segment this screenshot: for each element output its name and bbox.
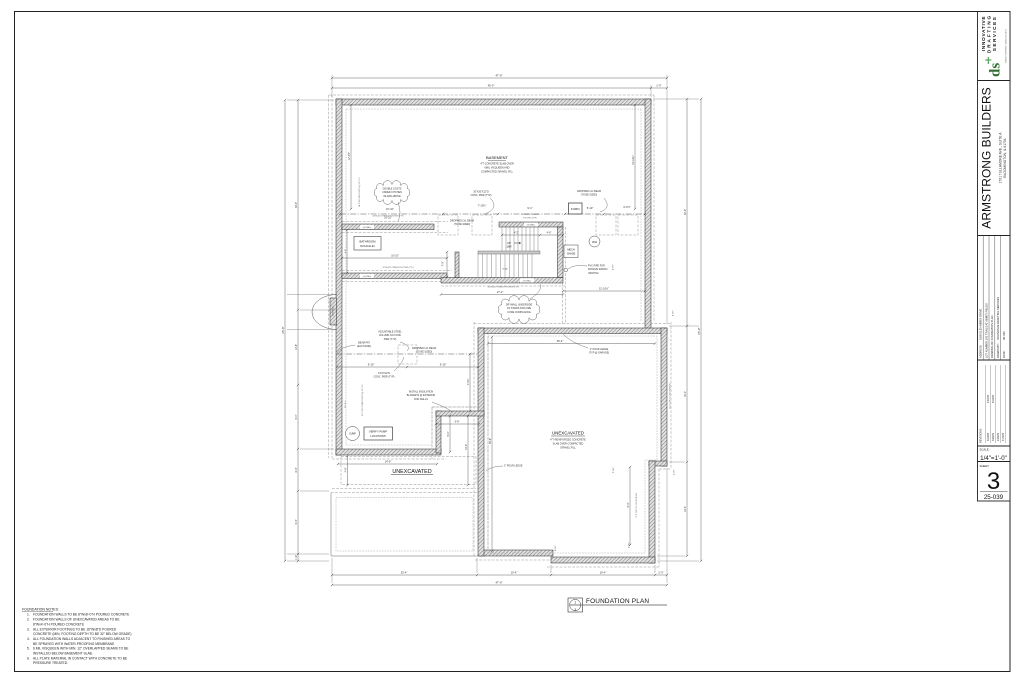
2x6 wall chip A	[360, 225, 374, 229]
foundation plan underline	[570, 604, 667, 606]
wall interior strip A	[342, 224, 434, 230]
svg-text:DRAWING OF:: DRAWING OF:	[990, 340, 994, 358]
svg-text:BLANKETS @ EXTERIOR: BLANKETS @ EXTERIOR	[407, 394, 436, 397]
svg-text:1'-0": 1'-0"	[295, 555, 298, 560]
svg-text:16"Wx10"D TRENCH: 16"Wx10"D TRENCH	[521, 214, 539, 216]
footing dashes garage bottom west	[475, 559, 551, 561]
svg-text:ds: ds	[988, 63, 1004, 77]
armstrong builders box divider	[978, 235, 1011, 237]
svg-text:COMPACTED GRAVEL FILL: COMPACTED GRAVEL FILL	[481, 171, 514, 174]
svg-text:2x6 WALL: 2x6 WALL	[527, 224, 536, 227]
title block outer frame	[978, 12, 1011, 502]
svg-text:4"T REINFORCED CONCRETE: 4"T REINFORCED CONCRETE	[550, 439, 586, 442]
svg-text:INSTALLED BELOW BASEMENT SLAB.: INSTALLED BELOW BASEMENT SLAB.	[33, 652, 93, 656]
svg-text:30'-8": 30'-8"	[489, 438, 492, 444]
cloud double joists	[374, 181, 409, 205]
lower beam dim line	[337, 366, 478, 368]
svg-text:BE SPRAYED WITH WATER-PROOFING: BE SPRAYED WITH WATER-PROOFING MEMBRANE	[33, 642, 115, 646]
insulation dashes step inner	[346, 407, 474, 445]
svg-text:PRESSURE TREATED.: PRESSURE TREATED.	[33, 661, 68, 665]
footing dashes left	[331, 95, 333, 458]
logo cross stroke	[987, 57, 989, 64]
left dim line 65-8	[284, 100, 286, 561]
dim 14-0 unexcavated	[338, 463, 437, 465]
sump circle	[346, 427, 360, 441]
bottom dim line segments	[332, 574, 667, 576]
svg-text:1: 1	[574, 601, 576, 605]
top extension lines	[331, 75, 333, 97]
svg-text:10'-0": 10'-0"	[465, 444, 468, 450]
insulation dashes basement top	[346, 108, 641, 110]
svg-text:CONCRETE (MIN. FOOTING DEPTH T: CONCRETE (MIN. FOOTING DEPTH TO BE 32" B…	[33, 632, 132, 636]
svg-text:DROPPED LVL BEAM: DROPPED LVL BEAM	[412, 347, 436, 350]
stairs lower flight treads	[477, 254, 479, 278]
svg-text:3: 3	[574, 608, 576, 612]
svg-text:LOCATIONS: LOCATIONS	[370, 434, 386, 438]
revisions divider	[978, 445, 1011, 447]
svg-text:2.: 2.	[27, 618, 30, 622]
svg-text:FOUNDATION WALLS TO BE 8"Wx8'-: FOUNDATION WALLS TO BE 8"Wx8'-0"H POURED…	[33, 613, 130, 617]
wall garage right lower	[649, 461, 655, 563]
wall stairwell bottom	[441, 278, 563, 284]
svg-text:16'-10": 16'-10"	[386, 207, 394, 211]
stairwell inner dim	[502, 234, 563, 236]
wall stairwell top	[499, 222, 563, 227]
revision column line 4	[1000, 365, 1002, 443]
wall stairwell right	[558, 227, 564, 278]
bathroom rough-in box	[354, 237, 381, 251]
svg-text:4'-6": 4'-6"	[344, 467, 347, 472]
footing dashes top	[329, 94, 654, 96]
beam pat leader	[337, 345, 355, 353]
wall garage right jog	[649, 461, 667, 466]
svg-text:10'-4": 10'-4"	[511, 570, 518, 574]
strip A footing dashes	[342, 220, 448, 222]
svg-text:DAVID CURRENT (309) 621-547: DAVID CURRENT (309) 621-5470	[1005, 29, 1008, 63]
svg-text:47'-0": 47'-0"	[495, 580, 502, 584]
svg-text:45'-0": 45'-0"	[488, 83, 495, 87]
info table column line 1	[982, 236, 984, 361]
svg-text:16'-10": 16'-10"	[384, 216, 392, 219]
revision column line 1	[985, 365, 987, 443]
svg-text:16'-10¾": 16'-10¾"	[632, 155, 635, 165]
dim 9-3 garage right	[629, 467, 631, 545]
svg-text:9'-10": 9'-10"	[440, 362, 447, 366]
svg-text:GRAVEL FILL: GRAVEL FILL	[560, 447, 576, 450]
svg-text:16"Wx10"D TRENCH FOOTING (TYP): 16"Wx10"D TRENCH FOOTING (TYP)	[488, 287, 519, 289]
svg-text:4'-6": 4'-6"	[547, 231, 552, 234]
svg-text:4/15/25: 4/15/25	[1002, 432, 1005, 441]
svg-text:PIER (TYP): PIER (TYP)	[384, 338, 397, 341]
svg-text:9'-1": 9'-1"	[527, 206, 532, 210]
svg-text:CHASE: CHASE	[567, 252, 576, 255]
svg-text:(EACH END): (EACH END)	[357, 345, 371, 348]
install insulation leader	[432, 402, 452, 412]
right dim line segments	[686, 99, 688, 556]
beam line lower	[336, 353, 478, 355]
2x6 wall chip stairs bottom	[520, 278, 534, 282]
wall top basement	[336, 99, 651, 105]
svg-text:(TO BE SIZED): (TO BE SIZED)	[454, 223, 471, 226]
svg-text:5/19/25: 5/19/25	[992, 394, 995, 403]
svg-text:5/19/25: 5/19/25	[987, 432, 990, 441]
svg-text:DRYWALL UNDERSIDE: DRYWALL UNDERSIDE	[506, 304, 532, 307]
svg-text:30'-0": 30'-0"	[295, 202, 298, 208]
strip B footing dashes	[342, 269, 452, 271]
svg-text:30"X30"X12"D: 30"X30"X12"D	[473, 191, 489, 194]
svg-text:ROUGH-IN: ROUGH-IN	[360, 244, 374, 248]
conc pier lower leader	[394, 357, 404, 371]
svg-text:INNOVATIVE DRAFTING SERVICES: INNOVATIVE DRAFTING SERVICES	[996, 297, 1000, 340]
svg-text:VENTING: VENTING	[588, 272, 599, 275]
furnace box FURN	[569, 203, 583, 214]
svg-text:ARMSTRONG BUILDERS: ARMSTRONG BUILDERS	[980, 87, 994, 228]
svg-text:4" POUR LEDGE: 4" POUR LEDGE	[590, 348, 609, 351]
svg-text:INNOVATIVE: INNOVATIVE	[981, 16, 987, 52]
svg-text:3'X3'X12"D: 3'X3'X12"D	[378, 372, 390, 375]
patio inner dashed	[336, 498, 473, 552]
svg-text:CONC. PIER (TYP): CONC. PIER (TYP)	[374, 376, 395, 379]
cloud double joists leader	[398, 202, 400, 221]
wall south basement	[336, 449, 441, 455]
svg-text:32'-0": 32'-0"	[684, 209, 687, 215]
svg-text:2x6 WALL: 2x6 WALL	[523, 279, 532, 282]
svg-text:4/22/25: 4/22/25	[987, 394, 990, 403]
verify pump box	[364, 427, 393, 440]
svg-text:FIREPLACE: FIREPLACE	[332, 305, 335, 316]
svg-text:FOUNDATION PLAN: FOUNDATION PLAN	[586, 598, 649, 605]
svg-text:FND WALLS: FND WALLS	[414, 398, 428, 401]
pier square stair mid	[472, 215, 492, 235]
wall interior strip B	[342, 273, 447, 279]
svg-text:UNDER KITCHEN: UNDER KITCHEN	[382, 191, 402, 194]
svg-text:FOUNDATION NOTES:: FOUNDATION NOTES:	[22, 608, 59, 612]
svg-text:5'-10": 5'-10"	[587, 206, 594, 210]
svg-text:(TO BE SIZED): (TO BE SIZED)	[416, 351, 433, 354]
pvc radon leader	[568, 265, 587, 269]
dim 16-10 strip B	[342, 257, 447, 259]
svg-text:23'-1" B/O STAIR JOISTS @ 16": 23'-1" B/O STAIR JOISTS @ 16" O.C.	[361, 384, 364, 416]
svg-text:6MIL VISQUEEN AND: 6MIL VISQUEEN AND	[485, 167, 510, 170]
dim 9-4 step rotated	[449, 416, 451, 452]
wall garage left	[478, 328, 484, 556]
footing dashes right basement	[653, 95, 655, 322]
wall right basement	[645, 99, 651, 333]
svg-text:FURN: FURN	[571, 207, 580, 211]
svg-text:PASSIVE RADON: PASSIVE RADON	[588, 268, 608, 271]
svg-text:4.: 4.	[27, 637, 30, 641]
pier square lower	[398, 345, 417, 364]
svg-text:PVC PIPE FOR: PVC PIPE FOR	[588, 265, 605, 268]
svg-text:9'-4": 9'-4"	[447, 431, 450, 436]
svg-text:7'-4": 7'-4"	[502, 267, 507, 271]
svg-text:6'-0½": 6'-0½"	[623, 205, 630, 209]
svg-text:5.: 5.	[27, 647, 30, 651]
svg-text:2/28/25: 2/28/25	[997, 432, 1000, 441]
revision column line 2	[990, 365, 992, 443]
footing dashes garage right	[670, 322, 672, 469]
svg-text:3.: 3.	[27, 627, 30, 631]
svg-text:SERVICES: SERVICES	[992, 16, 998, 51]
svg-text:47'-0": 47'-0"	[495, 73, 502, 77]
svg-text:CODE COMPLIANCE: CODE COMPLIANCE	[507, 311, 531, 314]
footing dashes garage left	[473, 322, 475, 556]
stairs direction arrow	[514, 242, 521, 244]
svg-text:9'-4": 9'-4"	[295, 414, 298, 419]
insulation dashes garage inner	[488, 336, 657, 553]
svg-text:BLOOMINGTON, IL 61704: BLOOMINGTON, IL 61704	[1003, 138, 1007, 177]
cloud drywall leader	[530, 284, 541, 299]
water heater circle WH	[589, 236, 600, 247]
dim 6-8 rotated left	[346, 230, 348, 273]
svg-text:FOUNDATION WALLS OF UNEXCAVATE: FOUNDATION WALLS OF UNEXCAVATED AREAS TO…	[33, 618, 120, 622]
2x6 wall chip B	[360, 274, 374, 278]
footing dashes garage top	[474, 323, 671, 325]
svg-text:REVISIONS:: REVISIONS:	[979, 428, 983, 443]
pour ledge 2 leader	[486, 466, 503, 471]
svg-text:2" POUR LEDGE: 2" POUR LEDGE	[504, 465, 523, 468]
fireplace box	[330, 298, 337, 325]
fireplace bay arc	[312, 295, 337, 330]
svg-text:SLAB OVER COMPACTED: SLAB OVER COMPACTED	[553, 443, 584, 446]
svg-text:7'-0": 7'-0"	[442, 261, 445, 266]
footing dashes garage bottom	[547, 566, 659, 568]
svg-text:WH: WH	[592, 240, 597, 244]
patio top dashed	[331, 492, 478, 494]
svg-text:16"Wx10"D TRENCH FOOTING (TYP): 16"Wx10"D TRENCH FOOTING (TYP)	[383, 267, 414, 269]
right extension lines	[653, 98, 699, 100]
svg-text:2x6 WALL: 2x6 WALL	[363, 226, 372, 229]
svg-text:DROPPED LVL BEAM: DROPPED LVL BEAM	[450, 220, 474, 223]
dim 9-8 step	[436, 423, 479, 425]
dim 16-10 upper right rotated	[634, 105, 636, 209]
svg-text:ADJUSTABLE STEEL: ADJUSTABLE STEEL	[378, 331, 402, 334]
footing dashes garage jog	[659, 468, 671, 470]
svg-text:BATHROOM: BATHROOM	[360, 239, 377, 243]
stairwell right footing dashes	[562, 283, 564, 324]
svg-text:UNEXCAVATED: UNEXCAVATED	[552, 431, 584, 436]
svg-text:6'-0": 6'-0"	[295, 467, 298, 472]
svg-text:BASEMENT: BASEMENT	[486, 155, 509, 160]
svg-text:6'-8": 6'-8"	[345, 249, 347, 254]
svg-text:9'-8": 9'-8"	[455, 420, 460, 423]
svg-text:ALL EXTERIOR FOOTINGS TO BE 16: ALL EXTERIOR FOOTINGS TO BE 16"Wx8"D POU…	[33, 627, 117, 631]
svg-text:(TYP @ GARAGE): (TYP @ GARAGE)	[589, 352, 609, 355]
insulation dashes basement left	[345, 109, 347, 445]
footing dashes garage right lower	[658, 469, 660, 567]
wall garage right upper	[661, 328, 667, 466]
svg-text:DROPPED LVL BEAM: DROPPED LVL BEAM	[577, 190, 601, 193]
conc pier top leader	[485, 198, 494, 214]
pier square stair left	[438, 215, 458, 235]
svg-text:9'-10": 9'-10"	[368, 362, 375, 366]
svg-text:20'-4": 20'-4"	[401, 570, 408, 574]
unexcavated strip dashed outline	[341, 457, 476, 485]
svg-text:7'-10½": 7'-10½"	[478, 204, 487, 208]
info table column line 4	[1000, 236, 1002, 361]
svg-text:16R: 16R	[506, 245, 511, 249]
svg-text:1.: 1.	[27, 613, 30, 617]
footing dashes south wall	[332, 458, 446, 460]
svg-text:INSTALL INSULATION: INSTALL INSULATION	[409, 391, 434, 394]
wall left basement	[336, 99, 342, 455]
svg-text:LOT NUMBER:: LOT NUMBER:	[984, 340, 988, 358]
unexcavated strip lower dashes	[332, 488, 476, 490]
svg-text:9'-3": 9'-3"	[627, 502, 630, 507]
svg-text:DOUBLE JOISTS: DOUBLE JOISTS	[383, 188, 402, 191]
svg-text:1108 GLEN ABBEY DRIVE: 1108 GLEN ABBEY DRIVE	[979, 309, 983, 340]
dim 4-6 rotated	[347, 456, 349, 485]
mech chase box	[564, 245, 578, 258]
top dim line 47-0	[332, 77, 667, 79]
left extension lines	[287, 99, 334, 101]
svg-text:ALL FOUNDATION WALLS ADJACENT: ALL FOUNDATION WALLS ADJACENT TO FINISHE…	[33, 637, 131, 641]
wall garage bottom west	[479, 550, 553, 556]
svg-text:3/26/25: 3/26/25	[992, 432, 995, 441]
beam dim ticks upper	[339, 213, 341, 215]
svg-text:2x6 WALL: 2x6 WALL	[363, 275, 372, 278]
svg-text:3: 3	[987, 468, 1000, 495]
info table column line 3	[994, 236, 996, 361]
dim 11-10 right	[563, 290, 645, 292]
bay extension lines	[287, 294, 337, 296]
svg-text:25'-4": 25'-4"	[557, 339, 564, 343]
pier square furn right 2	[618, 215, 638, 235]
info table divider	[978, 359, 1011, 361]
patio outline	[331, 493, 478, 556]
revision column line 5	[1005, 365, 1007, 443]
svg-text:ADDRESS:: ADDRESS:	[979, 344, 983, 358]
dropped lvl beam top right leader	[600, 198, 607, 212]
svg-text:4'-2": 4'-2"	[514, 231, 519, 234]
cloud drywall underside	[498, 296, 539, 324]
bottom dim line 47-0	[332, 584, 667, 586]
wall garage top	[478, 328, 667, 334]
svg-text:19'-4": 19'-4"	[684, 391, 687, 397]
left dim line segments	[297, 100, 299, 561]
stairs rail band	[478, 251, 540, 254]
svg-text:9'-0": 9'-0"	[295, 519, 298, 524]
svg-text:VERIFY PUMP: VERIFY PUMP	[369, 430, 387, 434]
2x6 wall chip stairs top	[524, 223, 538, 227]
dim 7-4 rotated	[469, 354, 471, 411]
svg-text:4"T CONCRETE SLAB OVER: 4"T CONCRETE SLAB OVER	[480, 163, 514, 166]
dim 17-4 upper left rotated	[350, 105, 352, 209]
info table column line 2	[988, 236, 990, 361]
svg-text:DRAFTING: DRAFTING	[986, 14, 992, 53]
svg-text:CONC. PIER (TYP): CONC. PIER (TYP)	[471, 194, 492, 197]
svg-text:FOUNDATION PLAN: FOUNDATION PLAN	[990, 315, 994, 340]
svg-text:8"Wx4'-0"H POURED CONCRETE: 8"Wx4'-0"H POURED CONCRETE	[33, 622, 85, 626]
svg-text:MECH: MECH	[567, 248, 575, 251]
svg-text:DRAWN BY:: DRAWN BY:	[996, 343, 1000, 358]
svg-text:3/17/25: 3/17/25	[1002, 331, 1006, 340]
foundation plan symbol	[568, 598, 583, 612]
dim 17-2 stairs	[441, 294, 563, 296]
pier square furn right 1	[596, 215, 616, 235]
svg-text:2'-0": 2'-0"	[658, 570, 663, 574]
svg-text:16'-10": 16'-10"	[391, 254, 399, 257]
svg-text:SCALE:: SCALE:	[980, 448, 990, 452]
dim 30-8 garage rotated	[491, 337, 493, 551]
svg-text:2'-0": 2'-0"	[656, 83, 661, 87]
svg-text:11'-10½": 11'-10½"	[599, 286, 609, 290]
svg-text:25-039: 25-039	[984, 494, 1004, 501]
wall step horizontal	[436, 411, 484, 416]
radon pipe circle	[564, 268, 568, 272]
svg-text:1/4"=1'-0": 1/4"=1'-0"	[980, 455, 1007, 462]
beam line upper	[340, 213, 645, 215]
wall garage bottom east	[551, 557, 655, 563]
svg-text:7'-4¾": 7'-4¾"	[467, 378, 470, 385]
pour ledge 4 leader	[563, 334, 588, 348]
svg-text:65'-8": 65'-8"	[697, 327, 701, 334]
svg-text:13'-4": 13'-4"	[684, 506, 687, 512]
svg-text:6 MIL VISQUEEN WITH MIN. 12" O: 6 MIL VISQUEEN WITH MIN. 12" OVERLAPPED …	[33, 647, 129, 651]
top dim line 45-0 and 2-0	[332, 87, 667, 89]
right dim line 65-8	[700, 99, 702, 561]
dim 25-4 garage	[488, 343, 655, 345]
adjustable steel leader	[400, 342, 408, 351]
svg-text:16'-4": 16'-4"	[600, 570, 607, 574]
svg-text:OF STAIRS FOR FIRE: OF STAIRS FOR FIRE	[507, 307, 532, 310]
svg-text:191 TRAILS AT ABBEY FIELDS: 191 TRAILS AT ABBEY FIELDS	[984, 303, 988, 340]
svg-text:17'-2": 17'-2"	[497, 290, 504, 294]
svg-text:14'-0": 14'-0"	[385, 459, 392, 463]
title block logo box divider	[978, 80, 1011, 82]
wall stair closet	[455, 252, 459, 278]
svg-text:15'-1¾": 15'-1¾"	[344, 400, 347, 408]
svg-text:SUMP: SUMP	[349, 434, 356, 436]
svg-text:ALL PLATE MATERIAL IN CONTACT: ALL PLATE MATERIAL IN CONTACT WITH CONCR…	[33, 656, 128, 660]
svg-text:COLUMN ON CONC: COLUMN ON CONC	[379, 334, 402, 337]
scale divider	[978, 461, 1011, 463]
svg-text:(TO BE SIZED): (TO BE SIZED)	[581, 194, 598, 197]
insulation dashes basement right	[640, 109, 642, 322]
wall step vertical	[436, 411, 441, 453]
svg-text:10'-8": 10'-8"	[295, 344, 298, 350]
stairs upper flight treads	[501, 227, 503, 251]
svg-text:BEAM PAT: BEAM PAT	[358, 342, 370, 345]
revision column line 3	[995, 365, 997, 443]
svg-text:9'-3" OUT-TO-OUT FOR M/O: 9'-3" OUT-TO-OUT FOR M/O	[636, 492, 638, 517]
dim 10-0 rotated	[467, 416, 469, 485]
stairwell bottom footing dashes	[441, 285, 565, 287]
svg-text:6.: 6.	[27, 656, 30, 660]
svg-text:ISLAND ABOVE: ISLAND ABOVE	[383, 195, 401, 198]
footing dashes step	[432, 406, 480, 408]
svg-text:65'-8": 65'-8"	[281, 326, 285, 333]
svg-text:16'-2" OUT-TO-OUT FOR M/O: 16'-2" OUT-TO-OUT FOR M/O	[670, 383, 672, 409]
svg-text:17'-4½": 17'-4½"	[347, 152, 351, 160]
svg-text:FOOTING (TYP): FOOTING (TYP)	[523, 217, 537, 219]
svg-text:24'-0" B/O FLR JOISTS @ 16" O.: 24'-0" B/O FLR JOISTS @ 16" O.C.	[359, 177, 361, 207]
svg-text:UNEXCAVATED: UNEXCAVATED	[392, 469, 431, 475]
bottom extension lines	[331, 558, 333, 583]
svg-text:DATE:: DATE:	[1002, 350, 1006, 358]
sheet divider line	[980, 491, 1008, 493]
